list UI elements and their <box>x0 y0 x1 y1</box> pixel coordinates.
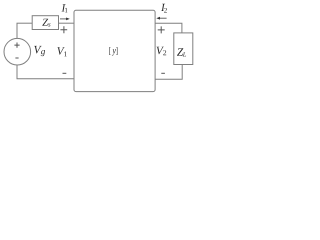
label I1 <box>62 4 66 11</box>
wire two-port to ZL corner top <box>155 23 182 33</box>
label V2 <box>157 47 164 55</box>
wire Zs to two-port <box>59 22 74 24</box>
label ZL <box>177 48 183 55</box>
label [y] of two-port <box>109 47 110 55</box>
load ZL box <box>174 33 193 65</box>
minus sign inside source <box>15 57 18 59</box>
current arrow I1 <box>60 18 70 21</box>
plus sign inside source <box>14 43 19 48</box>
wire top-left horizontal <box>17 22 33 24</box>
label Vg <box>34 46 41 54</box>
resistor Zs box <box>32 16 58 30</box>
label Zs <box>42 19 48 26</box>
voltage source Vg circle <box>4 38 31 65</box>
label I2 <box>161 4 165 11</box>
label V1 <box>57 47 64 55</box>
plus mark port 1 <box>60 26 67 33</box>
wire left vertical lower <box>16 65 18 79</box>
minus mark port 1 <box>63 72 67 74</box>
two-port network box U1 <box>74 10 155 91</box>
plus mark port 2 <box>158 26 165 33</box>
wire bottom-left horizontal <box>17 78 74 80</box>
wire ZL bottom stub <box>155 65 182 80</box>
minus mark port 2 <box>161 72 165 74</box>
current arrow I2 <box>156 17 166 20</box>
wire left vertical upper <box>16 23 18 38</box>
